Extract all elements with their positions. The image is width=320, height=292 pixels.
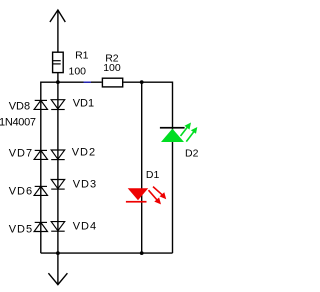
svg-text:R1: R1 [75,50,89,62]
svg-text:1N4007: 1N4007 [0,117,36,129]
power arrow bottom (minus terminal) [48,253,67,285]
resistor R1 [53,52,64,72]
LED D2 arrows [181,123,198,142]
svg-text:VD1: VD1 [73,97,94,109]
wire top rail left part [41,81,102,83]
svg-text:VD4: VD4 [73,220,97,232]
wire blue segment on top rail [84,81,92,83]
svg-text:100: 100 [69,65,87,77]
junction node bottom rail at diode column [56,251,60,255]
resistor R2 [102,78,122,87]
junction node below R1 [56,80,60,84]
wire D1 branch [141,82,143,253]
diode VD8 [34,100,47,109]
svg-text:VD3: VD3 [73,178,97,190]
svg-text:D2: D2 [185,148,199,160]
LED D2 cathode bar [160,127,185,129]
diode VD2 [51,150,64,160]
LED D2 triangle [161,129,184,142]
resistor R1 power marks [53,61,61,64]
diode VD6 [34,186,47,195]
svg-text:VD5: VD5 [9,223,33,235]
wire bottom rail [41,252,173,254]
wire left diode column [40,82,42,254]
diode VD4 [51,222,64,232]
LED D1 triangle [128,188,149,200]
diode VD1 [51,100,64,110]
svg-text:VD8: VD8 [9,100,30,112]
LED D1 cathode bar [126,201,147,203]
svg-text:D1: D1 [146,169,160,181]
wire top rail right of R2 [123,81,172,83]
junction node bottom rail at D1 branch [140,251,144,255]
power arrow top (plus terminal) [50,10,65,52]
diode VD3 [51,180,64,190]
wire right diode column [57,82,59,253]
svg-text:VD2: VD2 [72,146,96,158]
svg-text:VD7: VD7 [9,147,33,159]
diode VD5 [34,222,47,231]
wire D2 branch [172,82,174,254]
junction node top rail at D1 branch [140,80,144,84]
wire R1 to top rail [57,73,59,83]
svg-text:VD6: VD6 [9,185,33,197]
svg-text:100: 100 [103,62,121,74]
LED D1 arrows [149,187,167,205]
diode VD7 [34,150,47,159]
